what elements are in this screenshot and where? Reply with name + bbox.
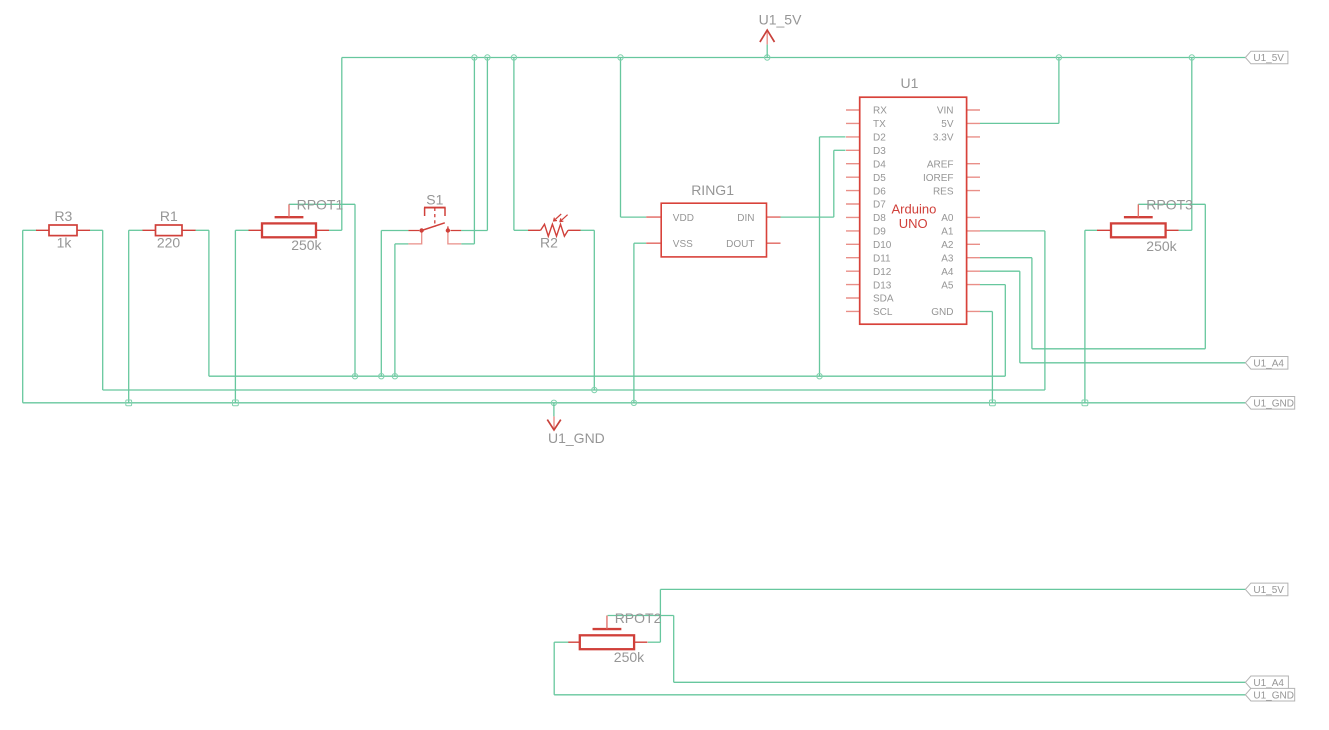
junction GND bus at x=633.9 (631, 400, 636, 405)
svg-text:D3: D3 (873, 146, 886, 157)
svg-text:U1_A4: U1_A4 (1253, 678, 1284, 689)
wire RPOT2 left vertical (553, 642, 555, 695)
junction GND bus at x=128.7 (square marker) (126, 400, 132, 406)
wire RPOT1 right lead wire (329, 229, 342, 231)
svg-text:RX: RX (873, 106, 887, 117)
svg-text:RPOT1: RPOT1 (297, 196, 344, 212)
wire U1 A5 to bus1 (1004, 285, 1006, 377)
junction bus2 at x=594.3 (592, 387, 597, 392)
wire A3-RPOT3 horizontal (1032, 348, 1205, 350)
wire bus1 (D2/A5/RPOT1 wiper/S1 net) (209, 375, 1005, 377)
junction GND bus at x=235.4 (square marker) (233, 400, 239, 406)
potentiometer RPOT1 (249, 204, 330, 237)
wire U1 GND to GND bus (991, 312, 993, 403)
svg-text:U1_GND: U1_GND (1253, 690, 1294, 701)
svg-text:A5: A5 (941, 280, 954, 291)
svg-text:250k: 250k (1146, 238, 1177, 254)
wire bottom U1_5V line (660, 588, 1245, 590)
svg-text:RES: RES (933, 186, 954, 197)
wire S1 pin3 wire (461, 230, 487, 232)
svg-text:U1: U1 (901, 75, 919, 91)
wire RING1 VSS to GND bus (633, 243, 635, 403)
svg-text:D6: D6 (873, 186, 886, 197)
svg-text:S1: S1 (426, 191, 443, 207)
svg-text:A1: A1 (941, 227, 954, 238)
junction 5V rail at x=1191.8 (1189, 55, 1194, 60)
svg-text:DIN: DIN (737, 213, 754, 224)
svg-text:Arduino: Arduino (891, 201, 936, 216)
wire U1 A3 vertical (1031, 258, 1033, 349)
wire RPOT1 right to 5V rail (341, 58, 343, 231)
svg-text:AREF: AREF (927, 159, 954, 170)
resistor R3 (36, 225, 90, 236)
wire U1 A4 wire (980, 270, 1020, 272)
wire R3 right lead wire (90, 229, 103, 231)
wire RING1 VDD wire (621, 216, 647, 218)
wire RPOT1 wiper horizontal (289, 203, 355, 205)
svg-text:U1_5V: U1_5V (759, 11, 802, 27)
wire RPOT3 left to GND bus (1084, 230, 1086, 402)
svg-text:R1: R1 (160, 208, 178, 224)
svg-text:A0: A0 (941, 213, 954, 224)
wire R1 right lead wire (195, 229, 209, 231)
wire U1 A4 to net flag (1020, 362, 1246, 364)
wire RPOT1 wiper to bus1 (354, 204, 356, 376)
svg-text:RPOT2: RPOT2 (615, 610, 662, 626)
junction GND bus at x=553.9 (551, 400, 556, 405)
wire R2 left lead wire (514, 229, 529, 231)
wire R1 right to bus1 (208, 230, 210, 376)
svg-text:250k: 250k (291, 237, 322, 253)
wire RPOT2 left lead wire (554, 641, 568, 643)
svg-text:SCL: SCL (873, 307, 893, 318)
wire U1 5V to rail (1058, 58, 1060, 124)
svg-text:VDD: VDD (673, 213, 694, 224)
wire U1 D2 to bus1 (819, 137, 821, 376)
wire RPOT3 left lead wire (1085, 229, 1098, 231)
wire S1 pin2 wire (395, 243, 409, 245)
junction bus1 at x=381.3 (379, 374, 384, 379)
svg-text:DOUT: DOUT (726, 239, 754, 250)
junction 5V rail at x=620.5 (618, 55, 623, 60)
wire GND bus (23, 402, 1246, 404)
wire RPOT1 left lead wire (235, 229, 249, 231)
wire R2 right lead wire (580, 229, 594, 231)
resistor R1 (143, 225, 196, 236)
svg-text:A2: A2 (941, 240, 954, 251)
junction 5V rail at x=767.2 (765, 55, 770, 60)
wire RPOT2 right vertical (659, 589, 661, 642)
wire RING1 VSS wire (634, 242, 646, 244)
svg-text:U1_GND: U1_GND (1253, 398, 1294, 409)
MCU U1 (Arduino UNO) (846, 97, 980, 324)
svg-text:D4: D4 (873, 159, 886, 170)
svg-text:250k: 250k (614, 649, 645, 665)
junction GND bus at x=992.4 (square marker) (990, 400, 996, 406)
svg-text:VSS: VSS (673, 239, 693, 250)
svg-text:D12: D12 (873, 267, 892, 278)
svg-text:D2: D2 (873, 133, 886, 144)
svg-text:R2: R2 (540, 234, 558, 250)
svg-text:RING1: RING1 (691, 182, 734, 198)
wire RPOT1 left to GND bus (234, 230, 236, 402)
wire R1 left lead wire (129, 229, 143, 231)
junction 5V rail at x=487.4 (485, 55, 490, 60)
wire bottom U1_GND line (554, 694, 1245, 696)
wire R2 right to bus2 (593, 230, 595, 390)
svg-text:5V: 5V (941, 119, 954, 130)
wire S1 pin3 to 5V rail (486, 58, 488, 231)
net flag U1_A4 bottom (1245, 676, 1288, 689)
svg-text:UNO: UNO (899, 216, 928, 231)
wire R3 left to GND bus (22, 230, 24, 402)
wire RPOT2 wiper horizontal (608, 615, 674, 617)
wire RPOT2 wiper vertical (673, 616, 675, 683)
wire DIN to U1 D3 vertical (833, 150, 835, 217)
wire net U1_5V top rail (342, 57, 1246, 59)
wire S1 pin4 to 5V rail (473, 58, 475, 244)
net flag U1_GND bottom (1245, 688, 1294, 701)
wire RPOT2 right lead wire (648, 641, 661, 643)
wire RPOT3 right lead wire (1179, 229, 1192, 231)
svg-text:SDA: SDA (873, 294, 894, 305)
svg-text:IOREF: IOREF (923, 173, 954, 184)
net flag U1_5V bottom (1245, 583, 1288, 596)
wire R2 left to 5V rail (513, 58, 515, 231)
svg-text:GND: GND (931, 307, 953, 318)
junction GND bus at x=1084.9 (square marker) (1082, 400, 1088, 406)
svg-text:D13: D13 (873, 280, 892, 291)
wire U1 D2 wire (820, 136, 846, 138)
wire RPOT3 right to 5V rail (1191, 58, 1193, 231)
wire R3 left lead wire (23, 229, 37, 231)
wire RING1 DIN wire (781, 216, 834, 218)
svg-text:D10: D10 (873, 240, 892, 251)
wire bottom U1_A4 line (674, 681, 1246, 683)
svg-text:D8: D8 (873, 213, 886, 224)
wire S1 pin4 wire (461, 243, 474, 245)
potentiometer RPOT2 (568, 616, 647, 650)
svg-text:U1_A4: U1_A4 (1253, 358, 1284, 369)
wire U1 A1 wire (980, 230, 1045, 232)
wire U1 D3 wire (834, 149, 846, 151)
junction 5V rail at x=513.9 (511, 55, 516, 60)
svg-text:RPOT3: RPOT3 (1146, 196, 1193, 212)
svg-text:1k: 1k (57, 234, 73, 250)
wire S1 pin1 wire (381, 230, 408, 232)
potentiometer RPOT3 (1097, 204, 1179, 237)
wire bus2 (R3/R2/A1 net) (103, 389, 1045, 391)
switch S1 (408, 208, 461, 244)
power flag U1_GND (547, 403, 604, 446)
svg-text:U1_5V: U1_5V (1253, 53, 1284, 64)
wire RPOT3 wiper horizontal (1138, 203, 1205, 205)
wire U1 A5 wire (980, 284, 1005, 286)
junction 5V rail at x=474.4 (472, 55, 477, 60)
wire S1 pin2 to bus1 (394, 244, 396, 376)
wire RING1 VDD to 5V rail (620, 58, 622, 218)
net flag U1_5V right top (1245, 51, 1288, 64)
junction bus1 at x=394.9 (392, 374, 397, 379)
wire U1 A3 wire (980, 257, 1032, 259)
svg-text:220: 220 (157, 234, 181, 250)
wire U1 A4 vertical (1019, 271, 1021, 363)
svg-text:D11: D11 (873, 253, 891, 264)
svg-text:VIN: VIN (937, 106, 954, 117)
wire U1 5V pin wire (980, 122, 1059, 124)
net flag U1_A4 right (1245, 357, 1288, 370)
svg-text:A4: A4 (941, 267, 954, 278)
wire RPOT3 wiper vertical (1204, 204, 1206, 348)
svg-text:D5: D5 (873, 173, 886, 184)
junction bus1 at x=819.5 (817, 374, 822, 379)
net flag U1_GND right (1245, 397, 1294, 410)
svg-text:R3: R3 (54, 208, 72, 224)
svg-text:A3: A3 (941, 253, 954, 264)
junction 5V rail at x=1058.9 (1056, 55, 1061, 60)
svg-text:TX: TX (873, 119, 886, 130)
wire U1 A1 to bus2 (1044, 231, 1046, 390)
svg-text:D9: D9 (873, 227, 886, 238)
wire S1 pin1 to bus1 (380, 231, 382, 377)
svg-text:U1_GND: U1_GND (548, 430, 605, 446)
svg-text:U1_5V: U1_5V (1253, 585, 1284, 596)
svg-text:D7: D7 (873, 200, 886, 211)
IC RING1 (646, 203, 780, 257)
svg-text:3.3V: 3.3V (933, 133, 954, 144)
power flag U1_5V (759, 11, 802, 57)
photoresistor R2 (528, 214, 580, 236)
wire R3 right to bus2 (102, 230, 104, 390)
wire R1 left to GND bus (128, 230, 130, 402)
junction bus1 at x=355 (352, 374, 357, 379)
wire U1 GND pin wire (980, 311, 992, 313)
